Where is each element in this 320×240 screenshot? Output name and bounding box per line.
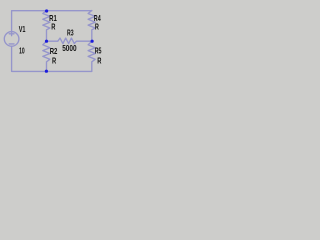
junction top of R1 — [45, 9, 48, 12]
resistor R2 — [43, 41, 50, 71]
svg-text:R5: R5 — [95, 46, 102, 56]
V1 plus bar — [9, 33, 14, 35]
svg-text:10: 10 — [19, 45, 25, 55]
svg-text:R: R — [97, 55, 101, 65]
junction bottom of R2 — [45, 70, 48, 73]
resistor R4 — [88, 11, 95, 42]
V1 plus lead — [11, 32, 13, 36]
junction node R4/R5/R3 — [91, 40, 94, 43]
svg-text:R: R — [51, 21, 55, 31]
resistor R1 — [43, 11, 50, 42]
V1 minus bar — [9, 43, 14, 45]
svg-text:R: R — [95, 21, 99, 31]
junction node mid R1/R2/R3 — [45, 40, 48, 43]
background canvas — [0, 0, 120, 93]
svg-text:R: R — [52, 55, 56, 65]
resistor R3 — [47, 38, 92, 44]
resistor R5 — [88, 41, 95, 71]
svg-text:R3: R3 — [67, 28, 74, 38]
wire bottom rail — [12, 46, 92, 71]
svg-text:V1: V1 — [19, 24, 26, 34]
source V1 body — [4, 32, 19, 47]
svg-text:5000: 5000 — [62, 43, 77, 53]
wire top rail — [12, 11, 92, 32]
